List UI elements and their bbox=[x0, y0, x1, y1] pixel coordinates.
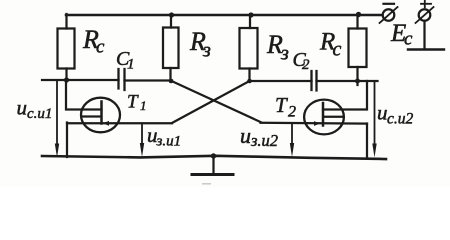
voltage arrow u_си1 bbox=[55, 80, 59, 158]
node junction dot A2 bbox=[169, 79, 174, 84]
wire top supply rail bbox=[66, 14, 382, 17]
wire gate line of T1 bbox=[67, 122, 172, 124]
wire T2 source to bottom rail bbox=[366, 124, 368, 159]
svg-text:з: з bbox=[202, 40, 211, 62]
wire RC1 top stub bbox=[65, 14, 67, 29]
terminal minus Ec bbox=[380, 4, 398, 23]
capacitor C1 bbox=[119, 69, 125, 90]
wire T2 drain connection bbox=[323, 81, 367, 110]
svg-text:1: 1 bbox=[127, 57, 135, 73]
label C2 value bbox=[293, 49, 311, 73]
node dot on rail above Rg1 bbox=[169, 12, 174, 17]
transistor T2 bbox=[304, 100, 344, 135]
label Ec bbox=[390, 20, 413, 50]
svg-text:u: u bbox=[240, 123, 251, 148]
svg-text:2: 2 bbox=[302, 57, 310, 73]
resistor Rg1 bbox=[163, 28, 179, 69]
resistor Rg2 bbox=[240, 28, 258, 69]
voltage arrow u_зи1 bbox=[140, 123, 144, 157]
svg-text:u: u bbox=[17, 96, 28, 120]
wire C1 to gate node bbox=[125, 79, 173, 81]
label u_зи2 bbox=[240, 123, 278, 150]
voltage arrow u_зи2 bbox=[290, 123, 294, 157]
label T2 bbox=[275, 93, 296, 121]
node dot on rail above Rg2 bbox=[248, 12, 253, 17]
svg-text:1: 1 bbox=[140, 98, 147, 113]
transistor T1 bbox=[81, 98, 120, 133]
wire T1 drain connection bbox=[66, 80, 102, 110]
wire diagonal A to gate of T2 bbox=[172, 81, 261, 122]
ground shadow mark bbox=[202, 183, 211, 185]
svg-text:с: с bbox=[96, 37, 105, 58]
wire RC2 bottom stub bbox=[356, 67, 358, 85]
label C1 value bbox=[116, 48, 135, 73]
wire gate line of T2 bbox=[261, 122, 368, 125]
wire Rg1 top stub bbox=[170, 15, 172, 28]
node junction dot A1 bbox=[64, 77, 69, 82]
wire T1 source to bottom rail bbox=[66, 123, 68, 158]
wire diagonal B to gate of T1 bbox=[172, 81, 250, 123]
resistor RC2 bbox=[349, 29, 367, 68]
svg-text:з.и2: з.и2 bbox=[250, 131, 278, 150]
label RC1 value bbox=[82, 25, 105, 58]
svg-text:с.и2: с.и2 bbox=[387, 111, 414, 128]
wire Rg2 top stub bbox=[249, 15, 251, 28]
wire Rg1 bottom stub bbox=[169, 68, 171, 81]
resistor RC1 bbox=[58, 29, 75, 69]
svg-text:с.и1: с.и1 bbox=[27, 106, 52, 122]
svg-text:з.и1: з.и1 bbox=[156, 134, 182, 150]
svg-text:з: з bbox=[280, 43, 289, 65]
label u_си1 bbox=[17, 96, 53, 123]
wire RC2 top stub bbox=[356, 15, 358, 29]
wire drain T1 node horizontal bbox=[42, 79, 119, 81]
node dot on rail above RC2 bbox=[356, 12, 361, 17]
label Rg1 value bbox=[189, 27, 211, 62]
voltage arrow u_си2 bbox=[372, 81, 376, 158]
svg-text:с: с bbox=[333, 39, 342, 61]
wire bottom common rail bbox=[42, 156, 386, 159]
wire Rg2 bottom stub bbox=[248, 69, 250, 82]
terminal plus Ec bbox=[416, 1, 434, 24]
svg-text:2: 2 bbox=[288, 104, 296, 121]
svg-text:u: u bbox=[377, 101, 388, 125]
capacitor C2 bbox=[312, 71, 317, 91]
wire gate node to C2 bbox=[250, 80, 312, 82]
svg-text:Т: Т bbox=[275, 93, 288, 117]
svg-text:Т: Т bbox=[127, 92, 139, 113]
node dot ground junction bbox=[211, 153, 216, 158]
label Rg2 value bbox=[266, 30, 289, 65]
label T1 bbox=[127, 92, 147, 114]
node junction dot A4 bbox=[355, 79, 360, 84]
wire RC1 bottom stub bbox=[65, 69, 67, 81]
label RC2 value bbox=[319, 29, 342, 61]
node junction dot A3 bbox=[247, 79, 252, 84]
svg-text:с: с bbox=[404, 29, 413, 50]
ground bbox=[192, 156, 233, 175]
label u_си2 bbox=[377, 101, 414, 128]
wire plus terminal to common bar bbox=[408, 21, 444, 50]
wire C2 to drain T2 node bbox=[317, 80, 378, 82]
label u_зи1 bbox=[147, 123, 181, 150]
